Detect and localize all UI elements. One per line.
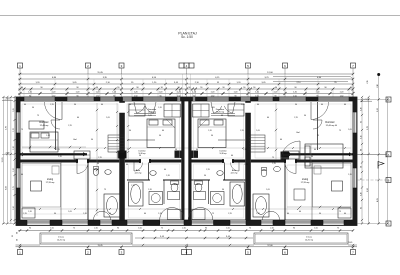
section mark blob at axis 3 party wall <box>118 151 127 159</box>
bathroom wall middle-left unit <box>127 179 150 181</box>
svg-text:25: 25 <box>12 235 14 237</box>
interior dimension chain x=97 <box>96 103 98 216</box>
top dimension row 3 (room widths) <box>18 83 353 85</box>
toilet left unit <box>93 168 98 175</box>
svg-text:1,20: 1,20 <box>177 92 181 94</box>
wardrobe middle-left unit at central wall <box>164 104 181 117</box>
svg-text:90: 90 <box>76 87 78 89</box>
svg-text:1,30: 1,30 <box>360 192 362 195</box>
svg-text:60: 60 <box>267 117 269 119</box>
corridor partition middle-left unit <box>127 139 155 141</box>
section cut bar through left unit <box>20 153 87 155</box>
closet blocks at mid wall left unit <box>74 151 90 159</box>
svg-text:1,50: 1,50 <box>226 227 230 229</box>
svg-text:60: 60 <box>257 104 259 106</box>
svg-text:1,20: 1,20 <box>58 156 62 158</box>
svg-text:75: 75 <box>196 184 198 186</box>
bathroom wall middle-right unit <box>192 179 211 181</box>
svg-text:60: 60 <box>231 155 233 157</box>
french door arc middle-left unit <box>160 208 185 220</box>
room finish outline left unit living <box>22 165 86 214</box>
interior horizontal chain y=209 <box>22 208 351 210</box>
partition right unit bedroom divider <box>317 102 319 150</box>
svg-text:2,15: 2,15 <box>68 125 72 127</box>
central double party wall at axis 4 (left leaf) <box>181 101 184 220</box>
svg-text:60: 60 <box>335 125 337 127</box>
bathroom partition right unit <box>284 163 286 221</box>
building outer outline <box>16 97 357 226</box>
svg-text:90: 90 <box>117 87 119 89</box>
svg-text:90: 90 <box>91 139 93 141</box>
svg-text:2,15: 2,15 <box>367 80 369 83</box>
left dimension column b <box>6 97 8 224</box>
svg-text:17,35 mp: 17,35 mp <box>46 182 56 184</box>
bed middle-right unit <box>198 119 226 148</box>
svg-text:2,15: 2,15 <box>50 104 54 106</box>
partition left unit bedroom divider <box>55 102 57 150</box>
svg-text:23,45: 23,45 <box>348 242 353 244</box>
svg-text:Dormitor: Dormitor <box>39 121 48 124</box>
window in right wall upper <box>353 112 357 133</box>
svg-text:Dormitor: Dormitor <box>216 108 225 111</box>
svg-text:11,20 mp: 11,20 mp <box>148 112 157 114</box>
extension hairline comb under top rows <box>19 89 21 97</box>
left columns top connector <box>2 97 16 99</box>
svg-text:11,45: 11,45 <box>97 72 103 74</box>
svg-text:2,15: 2,15 <box>131 185 135 187</box>
svg-text:1,05: 1,05 <box>211 107 215 109</box>
svg-text:90: 90 <box>54 213 56 215</box>
svg-text:60: 60 <box>77 117 79 119</box>
svg-text:1,05: 1,05 <box>106 117 110 119</box>
svg-text:90: 90 <box>175 149 177 151</box>
grid marker column 3 (bottom) <box>119 250 124 255</box>
interior dimension chain x=310 (vertical) <box>275 103 277 160</box>
svg-text:90: 90 <box>96 87 98 89</box>
svg-text:Living: Living <box>47 178 54 181</box>
partition line left unit living x=61 <box>60 163 62 221</box>
grid marker column 4 (bottom, double) <box>182 250 187 255</box>
sink right unit <box>274 166 281 171</box>
svg-text:90: 90 <box>311 156 313 158</box>
party wall at axis 3 <box>119 101 125 220</box>
room finish outline left unit bedroom <box>22 104 118 158</box>
svg-text:1,20: 1,20 <box>148 189 152 191</box>
room finish outline right unit bedroom <box>255 104 351 158</box>
bathroom partition left unit <box>87 163 89 221</box>
svg-text:D: D <box>388 98 390 102</box>
svg-text:2,10: 2,10 <box>94 227 98 229</box>
grid marker column 3 (top) <box>119 63 124 68</box>
partition line right unit living x=312 <box>311 163 313 221</box>
svg-text:12,40 mp: 12,40 mp <box>326 125 336 127</box>
svg-text:4,15 mp: 4,15 mp <box>231 172 238 174</box>
door arc left unit bedroom <box>51 120 60 129</box>
svg-text:1,20: 1,20 <box>256 213 260 215</box>
svg-text:90: 90 <box>188 87 190 89</box>
bathtub middle-left unit <box>129 182 144 206</box>
svg-text:90: 90 <box>304 115 306 117</box>
svg-text:1,20: 1,20 <box>134 92 138 94</box>
svg-text:90: 90 <box>129 130 131 132</box>
left exterior wall <box>16 97 21 226</box>
svg-text:Hol: Hol <box>73 139 77 141</box>
svg-text:9,10: 9,10 <box>377 108 379 112</box>
closet niche left of central wall <box>175 151 184 159</box>
room finish outline middle-right bedroom <box>194 104 244 158</box>
svg-text:1,20: 1,20 <box>255 92 259 94</box>
svg-text:60: 60 <box>196 149 198 151</box>
closet niche right of central wall <box>190 151 199 159</box>
bath door arc left unit bottom <box>94 211 111 220</box>
svg-text:90: 90 <box>319 213 321 215</box>
cabinet left unit living <box>22 208 35 218</box>
svg-text:60: 60 <box>21 174 23 176</box>
svg-text:4,05: 4,05 <box>377 198 379 202</box>
svg-text:90: 90 <box>17 232 19 234</box>
svg-text:1,20: 1,20 <box>112 92 116 94</box>
svg-text:1,05: 1,05 <box>266 189 270 191</box>
staircase middle-left unit <box>108 135 124 152</box>
svg-text:60: 60 <box>101 104 103 106</box>
svg-text:75: 75 <box>317 135 319 137</box>
svg-text:75: 75 <box>21 129 23 131</box>
sink middle-left unit <box>150 171 156 176</box>
svg-text:1,05: 1,05 <box>148 115 152 117</box>
bathtub right unit <box>253 194 269 217</box>
svg-text:60: 60 <box>344 213 346 215</box>
grid marker column 5 (top) <box>246 63 251 68</box>
svg-text:60: 60 <box>299 211 301 213</box>
svg-text:90: 90 <box>222 189 224 191</box>
svg-text:1,20: 1,20 <box>211 92 215 94</box>
grid marker column 2 (bottom) <box>86 250 91 255</box>
svg-text:2,15: 2,15 <box>98 157 102 159</box>
svg-text:95: 95 <box>360 178 362 180</box>
svg-text:60: 60 <box>164 169 166 171</box>
svg-text:2,15: 2,15 <box>240 130 244 132</box>
toilet middle-right unit <box>195 183 202 191</box>
svg-text:2,15: 2,15 <box>206 169 210 171</box>
svg-text:75: 75 <box>37 115 39 117</box>
svg-text:1,05: 1,05 <box>348 129 352 131</box>
svg-text:90: 90 <box>205 227 207 229</box>
french door arc middle-right unit <box>188 208 213 220</box>
bottom exterior wall (masonry piers) <box>16 220 27 226</box>
svg-text:1,20: 1,20 <box>28 92 32 94</box>
svg-text:C: C <box>388 222 390 226</box>
top dimension row 2 (axis distances) <box>18 78 353 80</box>
svg-text:5,70: 5,70 <box>6 126 8 130</box>
carpet outline right unit living <box>313 163 352 207</box>
svg-text:1,20: 1,20 <box>28 211 32 213</box>
svg-text:90: 90 <box>109 213 111 215</box>
svg-text:1,10: 1,10 <box>13 168 15 172</box>
svg-text:75: 75 <box>272 157 274 159</box>
washer middle-left unit <box>149 192 163 205</box>
svg-text:1,20: 1,20 <box>96 92 100 94</box>
windows in top wall <box>24 97 55 99</box>
svg-text:90: 90 <box>97 163 99 165</box>
room finish outline right unit living <box>287 165 351 214</box>
right section connector with marker A <box>357 153 386 155</box>
door arc right unit bedroom <box>313 120 322 129</box>
svg-text:1,20: 1,20 <box>13 146 15 150</box>
svg-text:90: 90 <box>295 104 297 106</box>
sink left unit <box>105 170 111 175</box>
central double party wall at axis 4 (right leaf) <box>188 101 191 220</box>
svg-text:2,10: 2,10 <box>270 227 274 229</box>
window in left wall lower <box>16 168 20 188</box>
shower right unit <box>294 189 305 200</box>
svg-text:1,20: 1,20 <box>46 135 50 137</box>
svg-text:terasa: terasa <box>58 235 65 238</box>
svg-text:2,15: 2,15 <box>294 117 298 119</box>
svg-text:14,20 mp: 14,20 mp <box>305 240 314 242</box>
room finish outline middle-left bedroom <box>127 104 180 158</box>
svg-text:60: 60 <box>144 213 146 215</box>
svg-text:90: 90 <box>324 87 326 89</box>
svg-text:90: 90 <box>253 87 255 89</box>
svg-text:12,20: 12,20 <box>2 158 4 163</box>
top dimension row 5 (wall string) <box>18 93 353 95</box>
svg-text:terasa: terasa <box>306 235 313 238</box>
table left unit living <box>31 181 42 191</box>
svg-text:6,50: 6,50 <box>367 188 369 192</box>
mid interior wall <box>21 160 78 163</box>
svg-text:1,20: 1,20 <box>52 92 56 94</box>
svg-text:75: 75 <box>212 213 214 215</box>
top horizontal rule <box>0 15 400 17</box>
svg-text:1,20: 1,20 <box>243 149 247 151</box>
svg-text:75: 75 <box>337 227 339 229</box>
svg-text:60: 60 <box>24 104 26 106</box>
svg-text:17,35 mp: 17,35 mp <box>301 182 311 184</box>
svg-text:90: 90 <box>239 185 241 187</box>
svg-text:80: 80 <box>360 149 362 151</box>
top grid extension lines <box>19 74 21 97</box>
party wall at axis 5 <box>245 101 251 220</box>
svg-text:1,05: 1,05 <box>244 164 248 166</box>
svg-text:1,20: 1,20 <box>166 175 170 177</box>
svg-text:2,15: 2,15 <box>56 149 60 151</box>
svg-text:90: 90 <box>178 87 180 89</box>
bottom wall inner face line <box>16 219 357 221</box>
grid marker columns 4a 4b 4c (top, triple) <box>179 63 184 68</box>
svg-text:90: 90 <box>139 155 141 157</box>
svg-text:1,20: 1,20 <box>158 107 162 109</box>
svg-text:Dormitor: Dormitor <box>148 108 157 111</box>
window in right wall lower <box>353 168 357 188</box>
partition middle-right unit bath <box>208 180 210 204</box>
svg-text:90: 90 <box>200 87 202 89</box>
svg-text:Sc. 1:50: Sc. 1:50 <box>181 35 193 39</box>
svg-text:Hol: Hol <box>296 132 300 134</box>
bottom dimension row 2 (partial, between terraces) <box>135 237 253 239</box>
wardrobe middle-right unit at central wall <box>193 104 210 117</box>
grid marker column 6 (bottom) <box>283 250 288 255</box>
svg-text:60: 60 <box>162 130 164 132</box>
terrace outline right (bottom) <box>254 233 348 244</box>
toilet right unit <box>261 169 267 177</box>
top dimension row 4 (openings) <box>18 88 353 90</box>
svg-text:1,75: 1,75 <box>13 186 15 190</box>
partition middle-right unit hall <box>224 163 226 181</box>
svg-text:1,50: 1,50 <box>50 227 54 229</box>
door arc right unit hall to living <box>285 163 296 174</box>
svg-text:1,20: 1,20 <box>340 92 344 94</box>
bathtub left unit <box>104 194 120 217</box>
roof overhang outline (top right) <box>273 76 349 78</box>
svg-text:12,00: 12,00 <box>267 245 273 247</box>
svg-text:1,20: 1,20 <box>76 92 80 94</box>
right dimension column d (overall) <box>387 97 389 224</box>
partition middle-left unit bath <box>163 180 165 204</box>
svg-text:75: 75 <box>339 130 341 132</box>
svg-text:90: 90 <box>29 227 31 229</box>
svg-text:1,20: 1,20 <box>234 92 238 94</box>
svg-text:90: 90 <box>74 104 76 106</box>
svg-text:11,20 mp: 11,20 mp <box>216 112 225 114</box>
grid marker column 7 (top) <box>351 63 356 68</box>
svg-text:90: 90 <box>21 87 23 89</box>
door jamb blocks on mid wall <box>76 159 78 163</box>
svg-text:1,20: 1,20 <box>159 92 163 94</box>
svg-text:90: 90 <box>159 135 161 137</box>
svg-text:12,00: 12,00 <box>267 72 273 74</box>
svg-text:90: 90 <box>32 107 34 109</box>
svg-text:1,20: 1,20 <box>158 213 162 215</box>
door arc middle-left unit hall <box>134 163 143 172</box>
right bottom connector with marker C <box>357 223 386 225</box>
svg-text:90: 90 <box>243 87 245 89</box>
bed in right unit (horizontal) <box>305 144 343 168</box>
svg-text:60: 60 <box>126 164 128 166</box>
svg-text:95: 95 <box>360 121 362 123</box>
svg-text:90: 90 <box>40 87 42 89</box>
svg-text:60: 60 <box>344 104 346 106</box>
svg-text:1,20: 1,20 <box>360 107 362 110</box>
bottom dimension row 1 (openings) <box>18 230 353 232</box>
right top connector with marker D <box>357 98 386 100</box>
svg-text:1,50: 1,50 <box>138 227 142 229</box>
svg-text:12,40 mp: 12,40 mp <box>40 125 50 127</box>
bed in left unit (horizontal) <box>30 132 58 152</box>
terrace outline left (bottom) <box>40 233 132 244</box>
interior dimension chain y=207 <box>287 206 351 208</box>
svg-text:75: 75 <box>249 227 251 229</box>
section mark blob at right section bar start <box>281 152 290 160</box>
svg-text:60: 60 <box>314 149 316 151</box>
right dimension column b <box>368 97 370 224</box>
svg-text:1,20: 1,20 <box>83 213 87 215</box>
top dimension row 1 (overall) <box>18 73 353 75</box>
svg-text:1,70: 1,70 <box>13 128 15 132</box>
svg-text:1,20: 1,20 <box>348 174 352 176</box>
bottom dimension row 3 (partial) <box>16 244 41 246</box>
svg-text:60: 60 <box>360 166 362 168</box>
svg-text:1,05: 1,05 <box>256 130 260 132</box>
entry double door middle-left unit <box>134 102 156 114</box>
window in left wall upper <box>16 112 20 133</box>
svg-text:90: 90 <box>204 175 206 177</box>
svg-text:2,15: 2,15 <box>228 213 232 215</box>
svg-text:2,15: 2,15 <box>272 163 276 165</box>
bath door arc right unit bottom <box>263 211 280 220</box>
svg-text:1,20: 1,20 <box>208 130 212 132</box>
svg-text:90: 90 <box>211 135 213 137</box>
extension hairlines row3 to row4 <box>19 79 21 89</box>
svg-text:90: 90 <box>136 87 138 89</box>
svg-text:5,70: 5,70 <box>367 126 369 130</box>
svg-text:90: 90 <box>275 87 277 89</box>
svg-text:1,15: 1,15 <box>360 135 362 138</box>
left dimension column a (overall) <box>3 97 5 224</box>
interior dimension chain x=117 <box>116 103 118 160</box>
left dimension column c <box>10 97 12 224</box>
top wall inner face line <box>16 100 357 102</box>
grid marker column 1 (bottom) <box>18 250 23 255</box>
svg-text:60: 60 <box>321 104 323 106</box>
svg-text:60: 60 <box>287 213 289 215</box>
svg-text:75: 75 <box>339 211 341 213</box>
bottom overall dimension line <box>16 246 358 248</box>
svg-text:1,05: 1,05 <box>241 104 245 106</box>
svg-text:2,10: 2,10 <box>182 227 186 229</box>
carpet outline left unit living <box>22 163 61 207</box>
cabinet right unit living <box>338 208 351 218</box>
bed middle-left unit <box>147 119 175 148</box>
svg-text:60: 60 <box>280 139 282 141</box>
svg-text:90: 90 <box>117 227 119 229</box>
closet blocks at mid wall right unit <box>283 151 299 159</box>
grid marker column 7 (bottom) <box>351 250 356 255</box>
right dimension column c (with top dot) <box>378 74 380 224</box>
svg-text:6,00: 6,00 <box>6 186 8 190</box>
svg-text:75: 75 <box>161 227 163 229</box>
bathtub middle-right unit <box>230 182 245 206</box>
svg-text:1,85: 1,85 <box>13 108 15 112</box>
wardrobe middle-right unit <box>228 104 244 116</box>
svg-text:Living: Living <box>302 178 309 181</box>
svg-text:60: 60 <box>17 239 19 241</box>
svg-text:90: 90 <box>293 227 295 229</box>
grid marker column 1 (top) <box>18 63 23 68</box>
svg-text:4,15 mp: 4,15 mp <box>135 172 142 174</box>
grid marker column 6 (top) <box>283 63 288 68</box>
wardrobe middle-left unit <box>129 104 145 116</box>
svg-text:1,20: 1,20 <box>274 92 278 94</box>
washer middle-right unit <box>211 192 225 205</box>
grid marker column 2 (top) <box>86 63 91 68</box>
interior horizontal chain y=148 full width <box>22 147 351 149</box>
svg-text:75: 75 <box>104 189 106 191</box>
section cut bar through right unit <box>286 153 353 155</box>
svg-text:1,20: 1,20 <box>174 184 178 186</box>
right connector row B (dash-dot) <box>357 179 386 181</box>
svg-text:2,15: 2,15 <box>23 213 27 215</box>
table right unit living <box>332 181 343 191</box>
svg-text:1,50: 1,50 <box>314 227 318 229</box>
top exterior wall (masonry piers) <box>16 97 24 101</box>
interior dimension chain y=147 left <box>22 146 86 148</box>
room finish outline middle-left living <box>129 164 180 218</box>
svg-text:11,45: 11,45 <box>97 245 103 247</box>
right exterior wall <box>353 97 358 226</box>
shower middle-right unit <box>194 192 206 200</box>
partition middle-left unit hall <box>148 163 150 181</box>
svg-text:90: 90 <box>350 87 352 89</box>
